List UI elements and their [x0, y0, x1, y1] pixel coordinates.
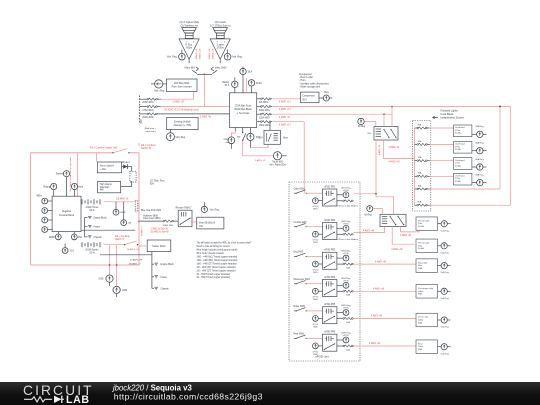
svg-text:4 AWG -W: 4 AWG -W [389, 146, 400, 149]
svg-text:125A 4WG: 125A 4WG [259, 117, 270, 120]
svg-text:Volt. Reg.: Volt. Reg. [167, 56, 178, 59]
svg-text:GMW: GMW [120, 212, 127, 214]
svg-text:1 AWG +3?: 1 AWG +3? [173, 101, 185, 104]
svg-text:Volt. Reg.: Volt. Reg. [210, 208, 220, 211]
svg-text:4 AWG +W: 4 AWG +W [211, 48, 214, 60]
svg-text:30.4A: 30.4A [455, 132, 461, 135]
svg-text:(Bolt onto +: (Bolt onto + [145, 127, 157, 130]
svg-text:sPOD PR3: sPOD PR3 [324, 250, 336, 252]
svg-text:30A: 30A [418, 140, 422, 143]
svg-text:SW: SW [237, 137, 240, 139]
svg-text:30A: 30A [418, 156, 422, 159]
svg-text:Pencil Light: Pencil Light [418, 219, 430, 222]
svg-text:4 AWG +W: 4 AWG +W [389, 161, 401, 164]
svg-text:SW5: SW5 [313, 326, 318, 328]
svg-text:GMW XML: GMW XML [163, 225, 174, 227]
svg-text:4 AWG +W: 4 AWG +W [195, 48, 198, 60]
svg-text:4 AWG +1?: 4 AWG +1? [279, 108, 291, 111]
svg-text:30A Reg.: 30A Reg. [475, 158, 484, 161]
svg-text:sPOD: sPOD [343, 308, 349, 310]
svg-text:60 Reg: 60 Reg [358, 126, 366, 128]
svg-text:30A: 30A [346, 348, 350, 351]
svg-text:20 - TBD Tinned copper strande: 20 - TBD Tinned copper stranded [197, 276, 231, 279]
svg-text:4: 4 [224, 42, 225, 44]
svg-text:1 AWG to 5x2+W: 1 AWG to 5x2+W [151, 228, 169, 231]
svg-text:275w: 275w [455, 178, 461, 180]
svg-text:Compressor:: Compressor: [299, 73, 313, 76]
svg-text:Terminal Block: Terminal Block [59, 214, 75, 217]
svg-text:15 A: 15 A [258, 136, 263, 139]
svg-text:4 AWG +W: 4 AWG +W [373, 288, 385, 291]
svg-text:Volt Reg.: Volt Reg. [441, 251, 450, 254]
svg-text:30A: 30A [418, 201, 422, 204]
svg-text:Driver side: Driver side [418, 316, 429, 319]
svg-text:20 - TBD Tinned copper strande: 20 - TBD Tinned copper stranded [197, 273, 231, 276]
svg-text:Wire length includes (track gr: Wire length includes (track ground cable… [197, 249, 238, 252]
svg-text:4 AWG -W: 4 AWG -W [378, 144, 381, 155]
svg-text:4 AWG +W: 4 AWG +W [391, 248, 403, 251]
svg-text:4 AWG +1?: 4 AWG +1? [279, 101, 291, 104]
svg-text:Volt. Reg.: Volt. Reg. [175, 136, 186, 139]
svg-text:1 AWG -W: 1 AWG -W [255, 159, 266, 162]
svg-text:30A Reg.: 30A Reg. [475, 142, 484, 145]
svg-text:C/Deck 1-line Modem: C/Deck 1-line Modem [338, 206, 359, 208]
svg-text:Engine Block: Engine Block [94, 218, 108, 220]
svg-text:Overhead: Overhead [455, 160, 465, 162]
svg-text:4 AWG +W: 4 AWG +W [363, 229, 375, 232]
svg-text:2/0 AWG +?: 2/0 AWG +? [129, 263, 142, 266]
svg-text:High Output: High Output [100, 183, 112, 186]
svg-text:4 AWG +W: 4 AWG +W [400, 234, 412, 237]
svg-text:Fog Light: Fog Light [418, 261, 428, 264]
svg-text:Horn: Horn [78, 186, 84, 189]
svg-text:Eng SW3: Eng SW3 [294, 252, 304, 254]
svg-text:30.4A: 30.4A [418, 225, 424, 228]
svg-text:Overhead: Overhead [455, 176, 465, 178]
svg-text:(2) Tweeters ea: (2) Tweeters ea [181, 24, 199, 27]
svg-text:sPOD: sPOD [343, 190, 349, 192]
svg-text:Servo System: Servo System [100, 164, 114, 167]
svg-text:-31.6: -31.6 [69, 251, 75, 253]
svg-text:Diode 2: Diode 2 [122, 162, 131, 164]
svg-text:600w: 600w [186, 47, 192, 50]
svg-text:Volt Reg.: Volt Reg. [441, 271, 450, 274]
svg-text:30 A: 30 A [302, 98, 307, 101]
svg-text:- Auxiliary outlet (Interior/e: - Auxiliary outlet (Interior/ext) [299, 82, 329, 85]
svg-text:100A 4WG: 100A 4WG [259, 109, 270, 112]
svg-text:Pure Sine Inverter: Pure Sine Inverter [172, 86, 192, 89]
svg-text:170A Max Fuse: 170A Max Fuse [235, 105, 253, 108]
svg-text:30.4A: 30.4A [455, 180, 461, 183]
svg-text:SW2: SW2 [313, 242, 318, 244]
svg-text:30A: 30A [418, 123, 422, 126]
svg-text:Volt. Reg.: Volt. Reg. [232, 56, 243, 59]
svg-text:4 AWG +W: 4 AWG +W [369, 342, 381, 345]
svg-text:sPOD PR1: sPOD PR1 [324, 186, 336, 188]
svg-text:275w: 275w [455, 130, 461, 132]
svg-text:2/0 AWG +12 (7+8 daisy/can one: 2/0 AWG +12 (7+8 daisy/can one) [164, 109, 199, 112]
svg-text:30A: 30A [418, 293, 422, 296]
svg-text:20 AWG +W: 20 AWG +W [130, 259, 143, 262]
svg-text:C/Deck 1-line Modem: C/Deck 1-line Modem [338, 239, 359, 241]
svg-text:Rear SW6: Rear SW6 [294, 333, 305, 336]
svg-text:Tachy 600: Tachy 600 [272, 162, 283, 164]
svg-text:extension): extension) [145, 130, 155, 133]
svg-text:Atm. Radio 50w: Atm. Radio 50w [269, 163, 286, 166]
svg-text:200A Max Block: 200A Max Block [234, 108, 252, 111]
svg-text:Remote SW/8.7: Remote SW/8.7 [176, 207, 193, 210]
svg-text:Compressor: Compressor [302, 95, 315, 98]
svg-text:16/0 - +4W (AC) Tinned copper: 16/0 - +4W (AC) Tinned copper stranded [197, 256, 238, 259]
svg-text:30w: 30w [418, 245, 422, 247]
svg-text:30 A: 30 A [248, 71, 253, 74]
svg-text:Volt Reg.: Volt Reg. [441, 229, 450, 232]
svg-text:30A: 30A [418, 172, 422, 175]
svg-text:Passenger side: Passenger side [418, 287, 434, 290]
svg-text:92 lb: 92 lb [89, 253, 95, 255]
svg-text:Overhead: Overhead [455, 127, 465, 129]
svg-text:Volt Reg.: Volt Reg. [441, 297, 450, 300]
svg-text:4/0 - +4W (AT) Tinned copper s: 4/0 - +4W (AT) Tinned copper stranded [197, 266, 237, 269]
svg-text:30A: 30A [418, 348, 422, 351]
svg-text:Volt Reg.: Volt Reg. [441, 326, 450, 329]
svg-text:30A: 30A [346, 266, 350, 269]
svg-text:+ 40w: + 40w [100, 169, 107, 171]
svg-text:20 AWG to xpr+W: 20 AWG to xpr+W [151, 231, 170, 234]
svg-text:Rcker SW5: Rcker SW5 [294, 305, 306, 308]
svg-text:30.4A: 30.4A [418, 247, 424, 250]
svg-text:GND: GND [98, 279, 103, 281]
svg-text:4 AWG +W: 4 AWG +W [375, 260, 387, 263]
svg-text:Horn: Horn [283, 137, 289, 140]
svg-text:Infinc 664: Infinc 664 [184, 67, 195, 70]
svg-text:sPOD PR5: sPOD PR5 [324, 304, 336, 306]
svg-text:4 AWG +W: 4 AWG +W [199, 48, 202, 60]
svg-text:- Horn: - Horn [299, 79, 306, 82]
svg-text:GMW: GMW [223, 139, 230, 141]
svg-text:60 Reg: 60 Reg [364, 215, 372, 217]
svg-text:100w: 100w [418, 346, 424, 348]
svg-text:Pencil Light: Pencil Light [418, 242, 430, 245]
svg-text:100w: 100w [418, 320, 424, 322]
svg-text:sPOD PR6: sPOD PR6 [324, 332, 336, 334]
svg-text:sPOD: sPOD [343, 335, 349, 337]
svg-text:30A: 30A [418, 267, 422, 270]
svg-text:20 AWG +?: 20 AWG +? [141, 225, 144, 236]
svg-text:Kill + Combine: Kill + Combine [141, 145, 157, 147]
svg-text:30.4: 30.4 [225, 85, 230, 87]
svg-text:275w: 275w [455, 163, 461, 165]
svg-text:30A: 30A [418, 184, 422, 187]
svg-text:sPOD PR4: sPOD PR4 [324, 277, 336, 279]
svg-text:sPOD: sPOD [343, 280, 349, 282]
svg-text:Independent Source: Independent Source [441, 115, 465, 119]
svg-text:Kill + Combine Switch 'A/B': Kill + Combine Switch 'A/B' [90, 146, 118, 149]
svg-text:4 AWG +W: 4 AWG +W [371, 315, 383, 318]
svg-text:30A: 30A [346, 321, 350, 324]
svg-text:Negative: Negative [62, 210, 72, 213]
svg-text:Passenger SW4: Passenger SW4 [294, 278, 311, 281]
svg-text:Frame: Frame [161, 276, 168, 279]
svg-text:Overhead: Overhead [455, 144, 465, 146]
svg-text:SW1: SW1 [313, 209, 318, 211]
svg-text:LAB: LAB [66, 394, 90, 405]
svg-text:4 AWG +1?: 4 AWG +1? [279, 123, 291, 126]
svg-text:Alternator: Alternator [100, 186, 110, 189]
svg-text:SW: SW [367, 133, 370, 135]
svg-text:- Rear Locker: - Rear Locker [299, 76, 313, 79]
svg-text:Switch '2': Switch '2' [115, 238, 125, 241]
svg-text:-0A: -0A [128, 222, 132, 225]
svg-text:SW3: SW3 [313, 272, 318, 274]
svg-text:30A: 30A [346, 294, 350, 297]
svg-text:4 AWG +W: 4 AWG +W [208, 48, 211, 60]
svg-text:200A 4WG: 200A 4WG [142, 116, 153, 119]
svg-text:20 AWG +W: 20 AWG +W [127, 248, 140, 251]
svg-text:SW4: SW4 [313, 299, 318, 301]
svg-text:AMS: AMS [122, 289, 127, 292]
svg-text:Fuse Block: Fuse Block [441, 112, 455, 116]
svg-text:30w: 30w [418, 223, 422, 225]
svg-text:60A: 60A [150, 182, 155, 185]
svg-text:The kill switch is rated for 4: The kill switch is rated for 48A, do it … [197, 242, 252, 245]
svg-text:48A: 48A [100, 189, 105, 192]
svg-text:15A: 15A [78, 236, 83, 239]
svg-text:Reg: Reg [324, 92, 329, 94]
svg-text:2700w: 2700w [217, 47, 224, 50]
svg-text:1 AWG -W: 1 AWG -W [200, 116, 212, 119]
svg-text:Switch 'W': Switch 'W' [141, 147, 152, 150]
svg-text:1/2' Glab. Post: 1/2' Glab. Post [150, 180, 165, 183]
svg-text:Blue Sea ACR 7622: Blue Sea ACR 7622 [141, 209, 162, 212]
svg-text:sPOD: sPOD [343, 253, 349, 255]
svg-text:175A 4WG: 175A 4WG [142, 109, 153, 112]
svg-text:16/0 - +4W (2T) Tinned copper: 16/0 - +4W (2T) Tinned copper stranded [197, 262, 238, 265]
svg-text:Starter Motor: Starter Motor [152, 245, 166, 248]
svg-text:92 lb: 92 lb [89, 210, 95, 212]
svg-text:Volt. Reg.: Volt. Reg. [154, 90, 165, 93]
svg-text:55w: 55w [418, 265, 422, 267]
svg-text:Rating: Rating [222, 81, 229, 84]
svg-text:150A 4WG: 150A 4WG [259, 124, 270, 127]
svg-text:Chassis: Chassis [161, 288, 170, 290]
svg-text:AGM Starter: AGM Starter [86, 249, 99, 252]
svg-text:4 AWG -W: 4 AWG -W [279, 116, 291, 119]
svg-text:2/0 AWG +0: 2/0 AWG +0 [116, 197, 129, 200]
svg-text:GMW: GMW [49, 237, 56, 239]
svg-text:MIDs: MIDs [37, 195, 43, 197]
svg-text:Wire Order (needs revised): Wire Order (needs revised) [197, 252, 224, 255]
svg-text:Chassis: Chassis [94, 237, 103, 239]
svg-text:- Water storage tank: - Water storage tank [299, 85, 321, 88]
svg-text:30.4A: 30.4A [256, 82, 262, 85]
svg-text:sPOD PR2: sPOD PR2 [324, 220, 336, 222]
svg-text:Harness (+ 70A): Harness (+ 70A) [174, 124, 192, 127]
svg-text:200 Max Watt: 200 Max Watt [174, 82, 190, 85]
svg-text:30.4A: 30.4A [455, 164, 461, 167]
svg-text:http://circuitlab.com/ccd68s22: http://circuitlab.com/ccd68s226j9g3 [114, 392, 263, 402]
svg-text:Tweete: Tweete [56, 173, 64, 176]
svg-text:Kill + Combine: Kill + Combine [115, 236, 130, 238]
svg-text:30A Reg.: 30A Reg. [475, 125, 484, 128]
svg-text:30A: 30A [418, 321, 422, 324]
svg-text:AGM House: AGM House [86, 206, 99, 209]
svg-text:30.4A: 30.4A [455, 148, 461, 151]
svg-text:Rating: Rating [44, 186, 51, 189]
svg-text:Rear: Rear [418, 342, 423, 345]
svg-text:Forward Lights: Forward Lights [441, 108, 459, 112]
svg-text:Volt Reg.: Volt Reg. [441, 352, 450, 355]
svg-text:sPOD: sPOD [343, 223, 349, 225]
svg-text:Achiever 5808: Achiever 5808 [143, 214, 158, 217]
svg-text:4/4 4WG: 4/4 4WG [259, 102, 268, 104]
svg-text:Need to note all wiring for cu: Need to note all wiring for current [197, 245, 231, 248]
svg-text:1/0 - +4W (2T) Tinned copper s: 1/0 - +4W (2T) Tinned copper stranded [197, 269, 237, 272]
svg-text:Engine Block: Engine Block [161, 264, 175, 266]
svg-text:10" 2700w Sub ea: 10" 2700w Sub ea [210, 24, 231, 27]
svg-text:16/0 - +4W (DC) Tinned copper: 16/0 - +4W (DC) Tinned copper stranded [197, 259, 238, 262]
svg-text:Infinc 2600: Infinc 2600 [215, 67, 227, 70]
svg-text:+ Terminals: + Terminals [237, 112, 250, 115]
svg-text:200A 4WG: 200A 4WG [142, 101, 153, 104]
svg-text:275w: 275w [455, 146, 461, 148]
svg-text:4: 4 [193, 42, 194, 44]
svg-text:Frame: Frame [94, 226, 101, 229]
svg-text:-0.A: -0.A [225, 141, 230, 144]
svg-text:Vism SB 50/cxA: Vism SB 50/cxA [199, 222, 216, 225]
svg-text:SW6: SW6 [313, 354, 318, 356]
svg-text:Cabot SW1: Cabot SW1 [294, 187, 306, 190]
svg-text:100w: 100w [418, 291, 424, 293]
svg-text:Disconnect (48A): Disconnect (48A) [143, 217, 161, 220]
svg-text:30A Reg.: 30A Reg. [475, 174, 484, 177]
